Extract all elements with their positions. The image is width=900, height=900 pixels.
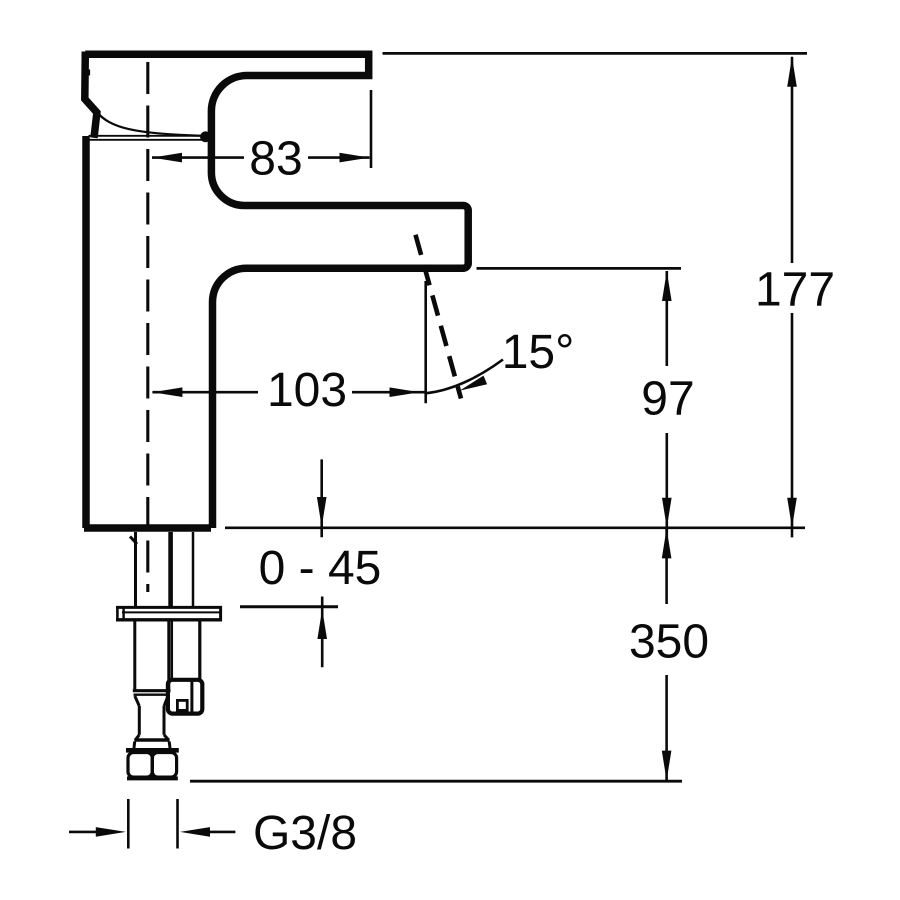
arrowhead G3/8 right xyxy=(180,827,210,837)
svg-text:15°: 15° xyxy=(502,326,575,379)
svg-text:177: 177 xyxy=(755,264,835,317)
arrowhead 83 right xyxy=(340,153,370,163)
svg-text:83: 83 xyxy=(249,133,302,186)
flange bottom edge xyxy=(116,618,222,621)
body left edge xyxy=(82,136,90,528)
shank right line xyxy=(192,532,195,606)
block notch xyxy=(177,700,187,710)
arrowhead 0-45 bottom xyxy=(317,609,327,639)
nut right cell xyxy=(152,753,176,778)
arrowhead 83 left xyxy=(152,153,182,163)
base reference line (y 527.8) xyxy=(225,526,805,529)
body bottom edge xyxy=(84,524,211,532)
G3/8 extension lines xyxy=(127,799,130,849)
hose narrow tube xyxy=(138,706,141,735)
body top face double line xyxy=(89,135,203,137)
arrowhead 177 bottom xyxy=(787,498,797,528)
bottom reference line (350 lower) xyxy=(190,780,682,783)
nut left cell xyxy=(128,753,152,778)
dimension 97 line xyxy=(665,271,668,366)
15 degree arc with leader xyxy=(426,360,503,394)
arrowhead 350 top xyxy=(662,528,672,558)
spout-bottom reference line (97 upper) xyxy=(477,267,682,270)
centerline (dashed axis) xyxy=(146,62,149,592)
dimension 83 line xyxy=(152,156,244,159)
lever underside thin curve xyxy=(97,112,203,136)
stud fitting block xyxy=(168,680,202,714)
15 degree vertical reference xyxy=(424,281,427,403)
flange left cap xyxy=(116,606,119,621)
83 extension line xyxy=(370,90,373,168)
arrowhead 177 top xyxy=(787,57,797,87)
faucet handle and spout outline xyxy=(85,54,468,528)
flange top edge xyxy=(116,606,222,609)
flange right end xyxy=(219,606,222,621)
svg-text:350: 350 xyxy=(629,616,709,669)
arrowhead 350 bottom xyxy=(662,751,672,781)
junction blob on body top xyxy=(200,131,211,142)
15 degree dashed swing line xyxy=(416,235,462,399)
nut top band xyxy=(126,748,179,753)
shank inner dark band xyxy=(168,532,173,606)
hose flare xyxy=(136,735,140,740)
svg-text:103: 103 xyxy=(267,364,347,417)
hose taper xyxy=(135,696,140,706)
0-45 lower arrow line xyxy=(321,597,324,668)
hose left tube below flange xyxy=(133,621,136,690)
dimension 350 line xyxy=(665,528,668,604)
nut bottom band xyxy=(127,776,178,780)
svg-text:G3/8: G3/8 xyxy=(253,807,357,860)
svg-text:0 - 45: 0 - 45 xyxy=(259,542,382,595)
collar sides xyxy=(133,742,137,749)
top reference line (177 upper) xyxy=(383,52,808,55)
arrowhead G3/8 left xyxy=(96,827,126,837)
arrowhead 103 left xyxy=(152,387,182,397)
arrowhead 15 degree arc xyxy=(460,376,488,391)
block inner line xyxy=(190,681,193,712)
arrowhead 0-45 top xyxy=(317,497,327,527)
arrowhead 103 right xyxy=(390,387,420,397)
shank left edge below body xyxy=(134,532,137,606)
stud right tube below flange xyxy=(171,621,174,680)
0-45 upper arrow line xyxy=(320,459,323,537)
shank chamfer xyxy=(130,537,137,545)
handle left edge with kink xyxy=(85,52,97,138)
dimension 177 line xyxy=(791,57,794,263)
hose crimp band xyxy=(133,689,171,692)
dimension 103 line xyxy=(152,391,258,394)
handle left edge tick xyxy=(87,70,90,76)
nut mid line xyxy=(151,753,154,778)
flange reference line (0-45 lower) xyxy=(240,605,338,608)
svg-text:97: 97 xyxy=(641,373,694,426)
flange mid line xyxy=(122,611,222,613)
collar band xyxy=(134,738,169,741)
arrowhead 97 bottom xyxy=(662,498,672,528)
arrowhead 97 top xyxy=(662,271,672,301)
G3/8 dimension lines xyxy=(69,831,97,834)
